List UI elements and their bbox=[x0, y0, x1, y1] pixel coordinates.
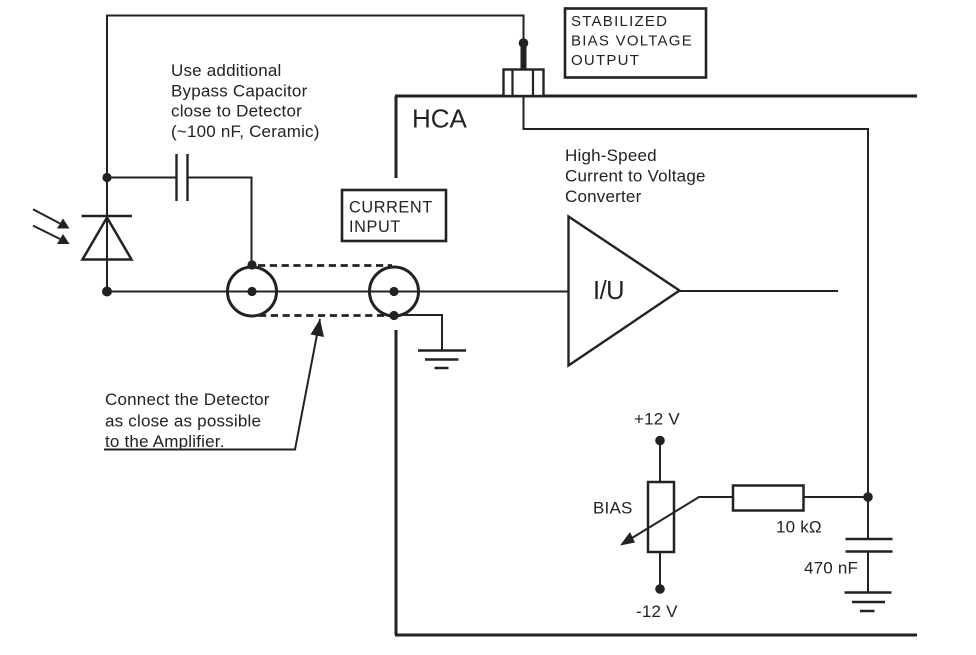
HCA amplifier box left edge lower bbox=[395, 330, 398, 635]
svg-text:High-Speed: High-Speed bbox=[565, 146, 657, 165]
svg-text:as close as possible: as close as possible bbox=[105, 411, 261, 430]
photodiode D1 cathode bar bbox=[82, 215, 133, 217]
svg-text:+12 V: +12 V bbox=[634, 410, 680, 429]
HCA amplifier box left edge upper bbox=[395, 96, 398, 178]
potentiometer R1 BIAS body bbox=[648, 482, 674, 552]
text High-Speed Current to Voltage Converter bbox=[565, 146, 706, 206]
coax connector plug P1 bbox=[228, 267, 277, 316]
node +12V terminal bbox=[655, 436, 665, 446]
svg-text:470 nF: 470 nF bbox=[804, 559, 858, 578]
wire capacitor to ground bbox=[867, 552, 869, 593]
svg-text:OUTPUT: OUTPUT bbox=[571, 52, 640, 69]
STABILIZED BIAS VOLTAGE OUTPUT box bbox=[565, 9, 706, 78]
node bias junction A bbox=[102, 173, 111, 182]
capacitor C2 470nF plates bbox=[846, 539, 893, 552]
bypass capacitor C1 bbox=[177, 154, 188, 201]
wire resistor to node C bbox=[804, 496, 868, 498]
wiper arrowhead bbox=[620, 532, 635, 546]
wire output pin to bias network bbox=[524, 97, 869, 539]
node J1 shield pin bbox=[389, 311, 398, 320]
svg-text:Converter: Converter bbox=[565, 187, 642, 206]
svg-text:Connect the Detector: Connect the Detector bbox=[105, 390, 270, 409]
svg-text:BIAS: BIAS bbox=[593, 499, 633, 518]
potentiometer wiper arrow bbox=[628, 497, 733, 541]
coax cable shield dashed top bbox=[258, 264, 392, 267]
coax connector jack J1 CURRENT INPUT bbox=[370, 267, 419, 316]
output pin connector base bbox=[504, 70, 544, 97]
node P1 center pin bbox=[247, 287, 256, 296]
wire J1 shield to ground bbox=[394, 315, 442, 350]
HCA amplifier box top edge bbox=[395, 95, 917, 98]
svg-text:-12 V: -12 V bbox=[636, 602, 678, 621]
node -12V terminal bbox=[655, 584, 665, 594]
HCA amplifier box bottom edge bbox=[395, 634, 917, 637]
svg-text:CURRENT: CURRENT bbox=[349, 198, 433, 216]
CURRENT INPUT box bbox=[342, 190, 446, 241]
ground GND2 bbox=[845, 593, 892, 612]
text Use additional Bypass Capacitor bbox=[171, 61, 320, 141]
svg-text:BIAS VOLTAGE: BIAS VOLTAGE bbox=[571, 33, 693, 50]
node J1 center pin bbox=[389, 287, 398, 296]
leader arrowhead bbox=[311, 319, 325, 337]
svg-text:Use additional: Use additional bbox=[171, 61, 282, 80]
photodiode D1 triangle bbox=[83, 218, 132, 260]
ground GND1 bbox=[418, 351, 466, 369]
wire +12V to potentiometer bbox=[659, 441, 661, 483]
output pin connector dot bbox=[519, 38, 529, 48]
light arrow 1 bbox=[33, 209, 70, 228]
svg-text:close to Detector: close to Detector bbox=[171, 102, 302, 121]
output pin connector base divider right bbox=[532, 70, 534, 97]
wire bias to bypass capacitor bbox=[107, 177, 176, 179]
wire main signal line bbox=[107, 291, 568, 293]
text CURRENT INPUT bbox=[349, 198, 433, 236]
svg-text:10 kΩ: 10 kΩ bbox=[776, 518, 822, 537]
output pin connector shaft bbox=[521, 43, 527, 70]
wire bias rail top loop bbox=[107, 16, 524, 293]
output pin connector base divider left bbox=[511, 70, 513, 97]
svg-text:I/U: I/U bbox=[593, 277, 624, 305]
wire potentiometer to -12V bbox=[659, 552, 661, 589]
text STABILIZED BIAS VOLTAGE OUTPUT bbox=[571, 13, 693, 69]
svg-text:Bypass Capacitor: Bypass Capacitor bbox=[171, 81, 308, 100]
svg-text:HCA: HCA bbox=[412, 104, 468, 134]
op-amp U1 I/U converter triangle bbox=[569, 217, 680, 366]
svg-text:STABILIZED: STABILIZED bbox=[571, 13, 668, 30]
svg-text:to the Amplifier.: to the Amplifier. bbox=[105, 432, 225, 451]
svg-text:INPUT: INPUT bbox=[349, 218, 401, 236]
node anode junction B bbox=[102, 287, 112, 297]
node C junction bbox=[863, 492, 873, 502]
text Connect the Detector bbox=[105, 390, 270, 451]
wire op-amp output bbox=[680, 290, 839, 292]
coax cable shield dashed bottom bbox=[259, 314, 390, 317]
wire bypass capacitor to coax shield bbox=[188, 178, 252, 263]
node P1 shield pin bbox=[247, 260, 256, 269]
svg-text:(~100 nF, Ceramic): (~100 nF, Ceramic) bbox=[171, 122, 320, 141]
leader line arrow to coax cable bbox=[104, 319, 320, 450]
resistor R2 10k body bbox=[733, 486, 804, 511]
light arrow 2 bbox=[33, 226, 70, 244]
svg-text:Current to Voltage: Current to Voltage bbox=[565, 167, 706, 186]
